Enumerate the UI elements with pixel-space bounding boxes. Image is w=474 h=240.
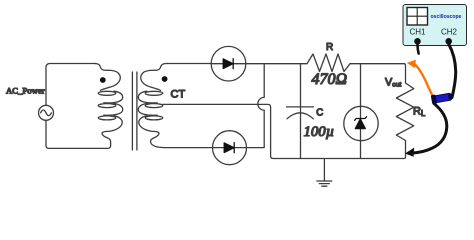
probe wire connector to ground arrow bbox=[411, 104, 447, 154]
svg-text:CT: CT bbox=[171, 88, 186, 100]
wire: AC source bottom bbox=[46, 120, 111, 148]
svg-text:R: R bbox=[326, 42, 333, 53]
oscilloscope XSC1 bbox=[403, 5, 467, 46]
diode D2 bbox=[213, 131, 247, 165]
wire: capacitor branch top bbox=[300, 64, 302, 107]
wire: top rail after R bbox=[350, 64, 406, 83]
ground bbox=[317, 159, 332, 187]
wire: capacitor branch bottom bbox=[300, 108, 302, 159]
svg-text:CH2: CH2 bbox=[441, 28, 458, 37]
oscilloscope screen grid icon bbox=[407, 8, 428, 26]
AC source V1 bbox=[39, 105, 54, 120]
wire: center tap run to bottom rail bbox=[163, 104, 274, 158]
zener diode D3 bbox=[344, 106, 378, 140]
diode D1 bbox=[211, 46, 246, 81]
svg-text:Vout: Vout bbox=[385, 76, 402, 88]
orange probe lead to Vout bbox=[415, 64, 433, 96]
transformer T1 secondary winding bbox=[138, 64, 166, 148]
wire: top rail D1 to node bbox=[246, 63, 307, 65]
wire: zener branch bbox=[360, 64, 362, 159]
transformer core bbox=[132, 72, 137, 150]
wire: bottom rail bbox=[273, 141, 405, 159]
wire: secondary bottom to diode D2 bbox=[163, 147, 213, 149]
svg-text:RL: RL bbox=[413, 106, 426, 119]
phase dot secondary bbox=[162, 76, 168, 82]
svg-text:470Ω: 470Ω bbox=[312, 71, 348, 88]
resistor RL zigzag bbox=[396, 83, 414, 141]
blue connector bbox=[431, 92, 453, 105]
wire: secondary top to diode D1 bbox=[166, 63, 211, 65]
svg-text:100µ: 100µ bbox=[304, 124, 335, 140]
wire: D2 output up to top rail with hop over CT wire bbox=[247, 64, 265, 148]
terminal CH2 bbox=[445, 38, 452, 45]
svg-text:oscilloscope: oscilloscope bbox=[431, 14, 462, 20]
probe wire CH2 to connector bbox=[449, 44, 456, 98]
wire: AC source top to transformer primary bbox=[46, 64, 96, 106]
svg-text:AC_Power: AC_Power bbox=[6, 86, 45, 96]
arrowhead black at bottom rail bbox=[405, 148, 414, 157]
svg-text:C: C bbox=[316, 107, 323, 118]
svg-text:CH1: CH1 bbox=[410, 28, 427, 37]
transformer T1 primary winding bbox=[95, 64, 123, 146]
terminal CH1 bbox=[414, 38, 421, 45]
arrowhead orange at Vout bbox=[407, 60, 416, 69]
capacitor C1 plates bbox=[287, 107, 314, 119]
probe wire CH1 (black stub) bbox=[418, 45, 419, 54]
phase dot primary bbox=[100, 77, 106, 83]
resistor R zigzag bbox=[307, 54, 350, 72]
